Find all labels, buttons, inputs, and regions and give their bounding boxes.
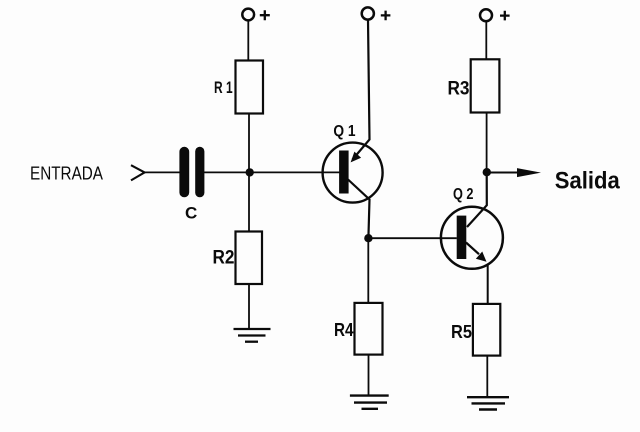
wire terminal to R1 bbox=[247, 21, 249, 61]
power terminal + for R3 bbox=[480, 9, 492, 21]
transistor Q1 bbox=[323, 143, 383, 238]
svg-text:Salida: Salida bbox=[555, 168, 620, 195]
resistor R2 bbox=[236, 232, 263, 285]
resistor R4 bbox=[355, 303, 383, 355]
resistor R3 bbox=[471, 59, 500, 112]
power terminal + for Q1 bbox=[362, 7, 374, 19]
power terminal + for R1 bbox=[242, 9, 254, 21]
wire R2 to ground bbox=[248, 284, 250, 329]
Q2 emitter line bbox=[466, 243, 479, 255]
svg-text:R3: R3 bbox=[448, 79, 470, 100]
transistor Q2 bbox=[441, 207, 503, 304]
wire R3 to output node bbox=[486, 113, 488, 173]
ground below R4 bbox=[350, 396, 389, 409]
wire junction to R4 bbox=[367, 238, 369, 303]
svg-text:ENTRADA: ENTRADA bbox=[30, 163, 104, 184]
wire R4 to ground bbox=[368, 355, 370, 396]
svg-text:C: C bbox=[185, 203, 197, 222]
svg-text:R4: R4 bbox=[334, 320, 354, 340]
resistor R5 bbox=[473, 304, 500, 356]
wire R1 to junction bbox=[248, 114, 250, 173]
wire terminal to R3 bbox=[485, 21, 487, 59]
output arrow to Salida bbox=[487, 172, 522, 174]
svg-text:Q 1: Q 1 bbox=[333, 123, 355, 140]
ground below R5 bbox=[467, 397, 509, 409]
Q2 base bar bbox=[457, 216, 467, 259]
node junction dot at output / Q2 collector bbox=[483, 168, 491, 176]
node junction dot at Q1 emitter / R4 / Q2 base bbox=[364, 234, 372, 242]
svg-text:R 1: R 1 bbox=[214, 78, 233, 97]
node junction dot at C / R1 / R2 bbox=[246, 168, 254, 176]
Q1 base bar bbox=[339, 151, 349, 194]
wire junction to Q2 base bbox=[368, 237, 456, 239]
Q2 emitter arrowhead bbox=[476, 252, 487, 262]
input chevron terminal bbox=[131, 165, 145, 180]
Q2 body circle bbox=[441, 207, 503, 269]
resistor R1 bbox=[236, 61, 264, 114]
wire capacitor to Q1 base bbox=[204, 171, 340, 173]
Q1 collector arrowhead bbox=[351, 152, 362, 163]
wire junction to R2 bbox=[248, 172, 250, 231]
svg-text:R5: R5 bbox=[451, 322, 472, 342]
svg-text:R2: R2 bbox=[213, 248, 235, 269]
Q1 emitter line bbox=[348, 180, 370, 239]
capacitor C plate 1 bbox=[179, 147, 189, 198]
wire input to capacitor bbox=[144, 171, 180, 173]
wire output node to Q2 collector bbox=[467, 172, 487, 227]
Q2 emitter wire below bbox=[487, 265, 489, 304]
wire R5 to ground bbox=[486, 356, 488, 398]
wire terminal to Q1 collector bbox=[353, 20, 370, 160]
capacitor C plate 2 bbox=[195, 147, 204, 198]
ground below R2 bbox=[234, 329, 271, 342]
svg-text:Q 2: Q 2 bbox=[453, 186, 474, 203]
Q1 body circle bbox=[323, 143, 383, 203]
